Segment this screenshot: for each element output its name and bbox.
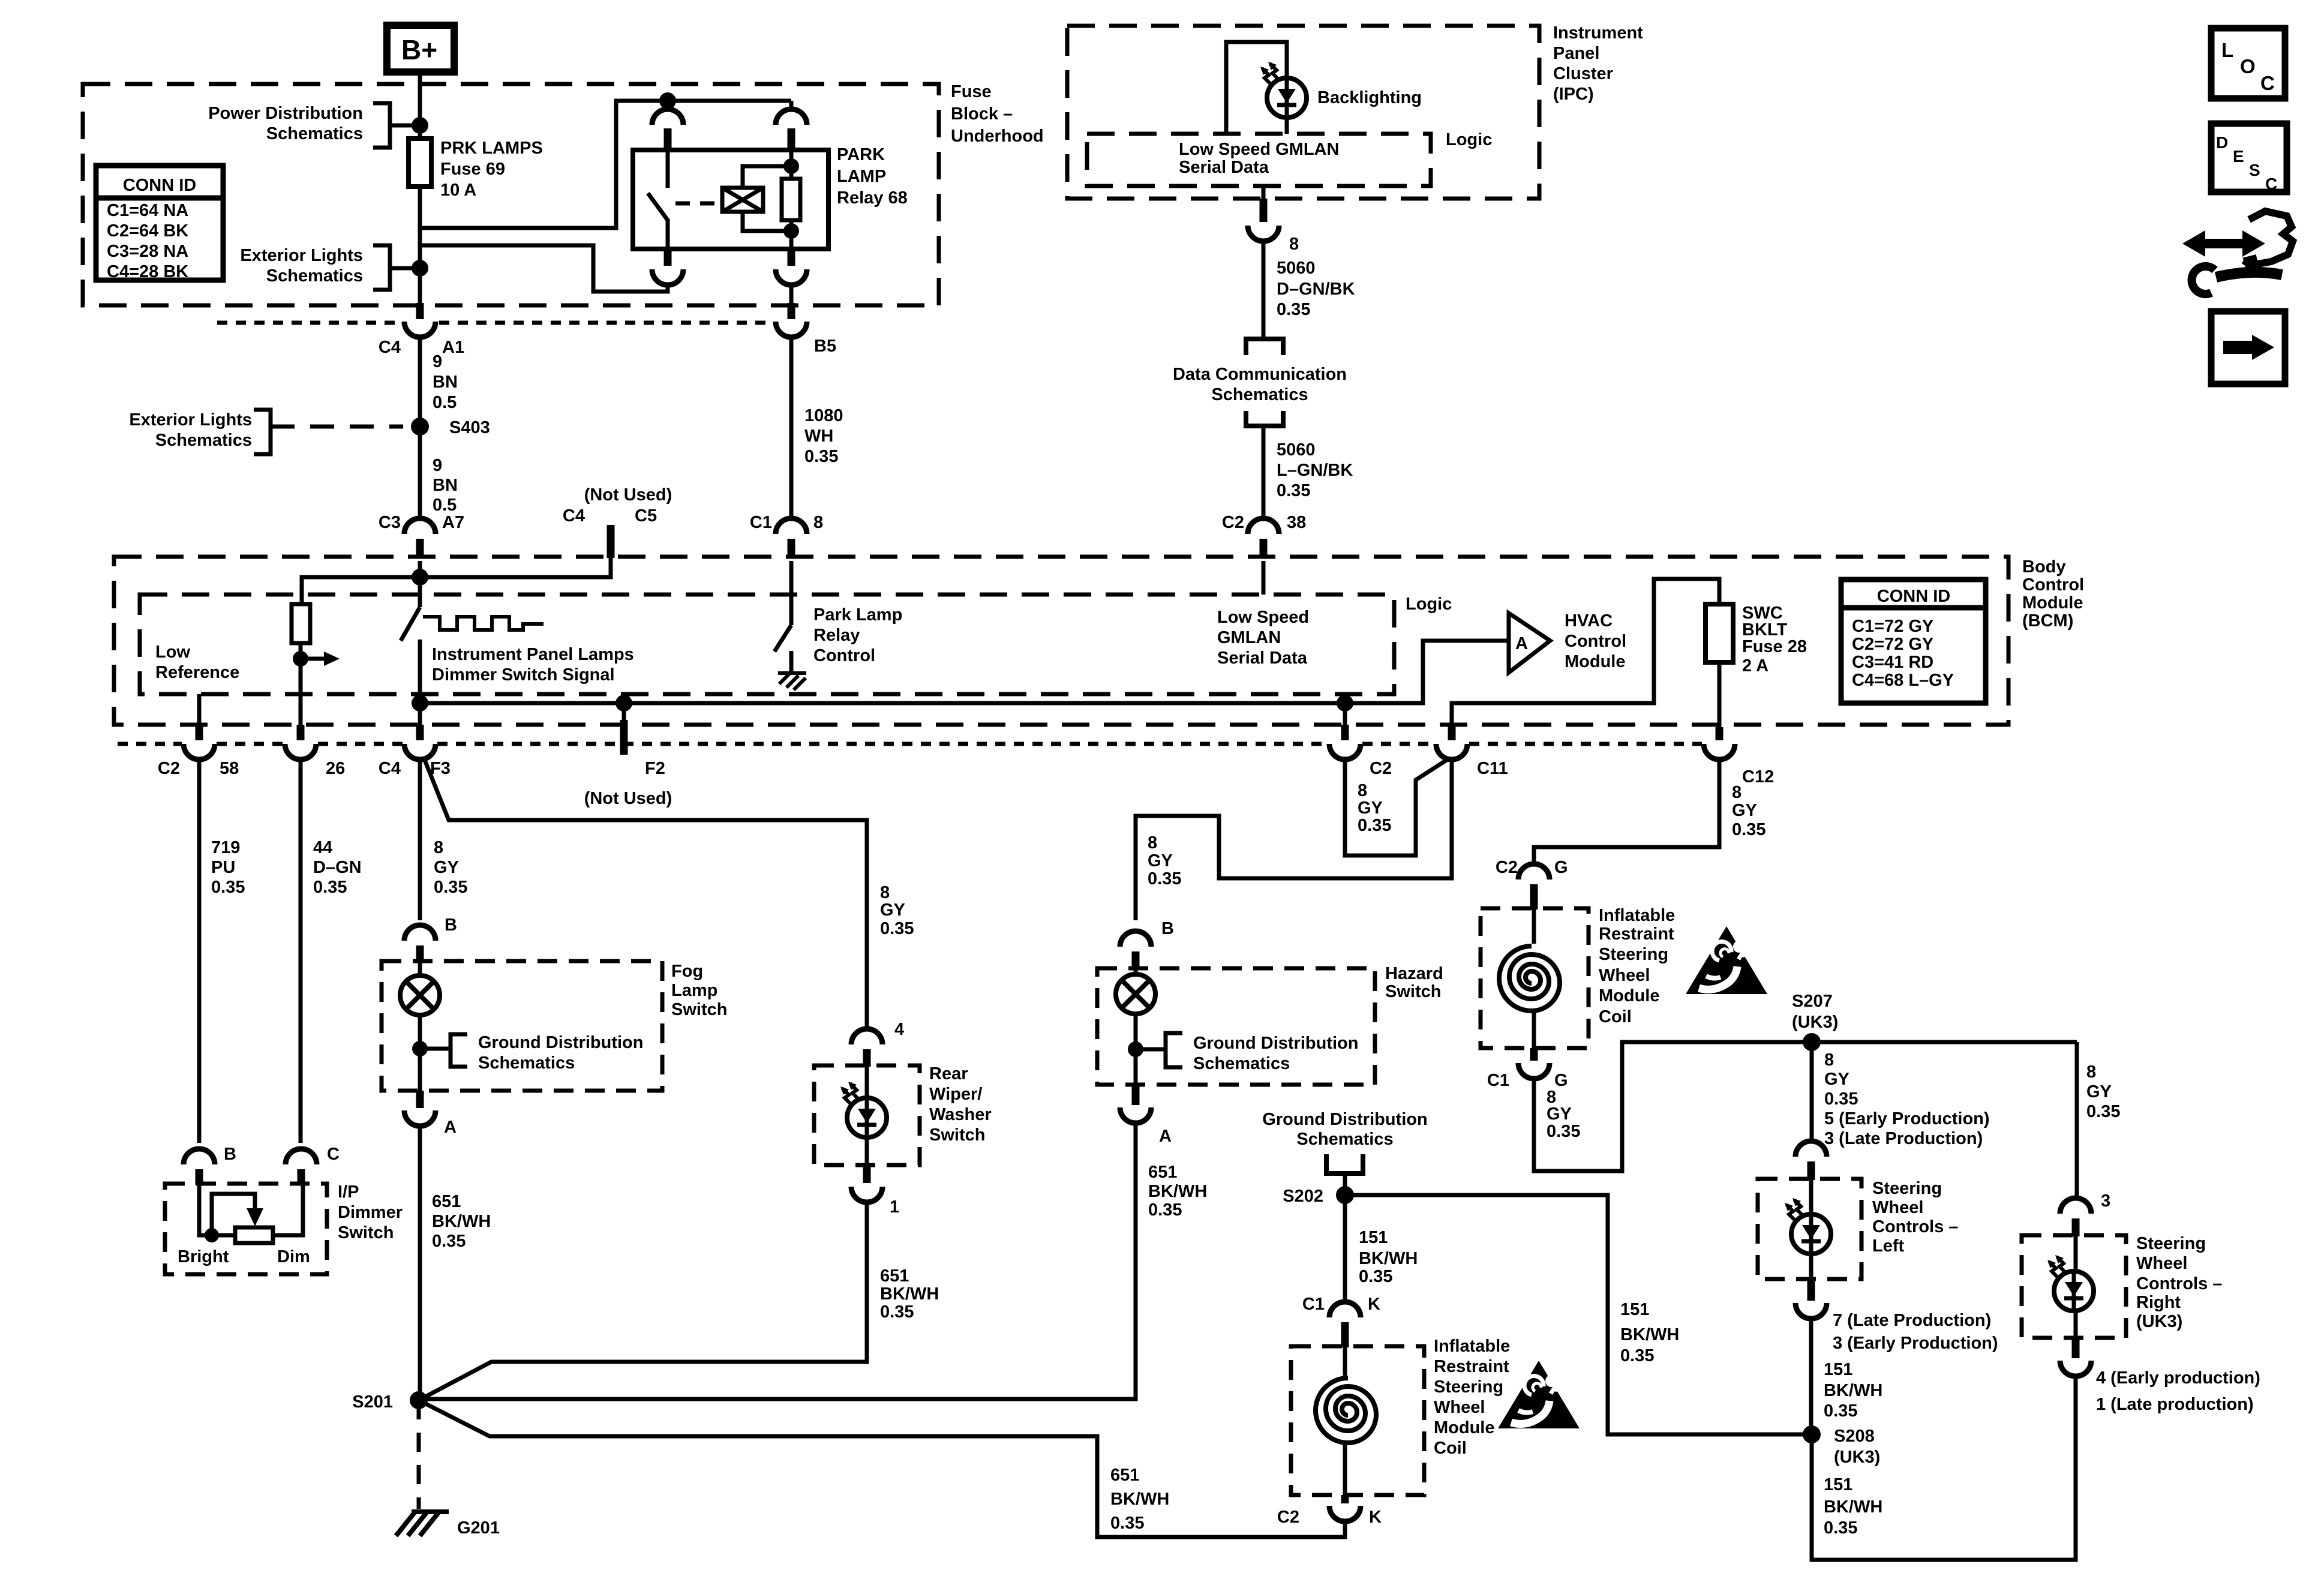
svg-text:8: 8 — [813, 513, 823, 532]
fuse block underhood dashed box — [83, 84, 939, 305]
DESC box icon — [2211, 124, 2287, 193]
svg-text:C2=72 GY: C2=72 GY — [1852, 635, 1933, 654]
svg-text:0.35: 0.35 — [804, 447, 838, 466]
svg-text:Dimmer: Dimmer — [338, 1203, 403, 1222]
svg-text:Coil: Coil — [1434, 1439, 1467, 1458]
connector C12 — [1716, 727, 1724, 740]
label fuse block underhood — [951, 82, 1044, 146]
svg-text:Park Lamp: Park Lamp — [813, 605, 902, 625]
svg-text:9: 9 — [433, 352, 442, 371]
svg-text:C1: C1 — [750, 513, 772, 532]
relay PARK LAMP Relay 68 box — [633, 150, 828, 249]
svg-text:BK/WH: BK/WH — [1824, 1381, 1882, 1400]
svg-text:GY: GY — [2086, 1082, 2112, 1101]
svg-text:Module: Module — [2022, 593, 2083, 613]
IPC bottom connector pin 8 — [1262, 186, 1266, 199]
svg-text:GY: GY — [1358, 798, 1383, 818]
svg-text:Controls –: Controls – — [2136, 1274, 2222, 1293]
dimmer/serial internal bus line — [420, 641, 1509, 703]
svg-text:G: G — [1554, 858, 1568, 877]
relay bottom pins — [664, 249, 672, 266]
wire C12 to coil C2/G — [1534, 760, 1719, 866]
wire C2 loop to C11 — [1345, 758, 1449, 855]
svg-text:Exterior Lights: Exterior Lights — [240, 246, 363, 265]
svg-text:151: 151 — [1824, 1360, 1852, 1379]
svg-text:1: 1 — [890, 1197, 899, 1217]
svg-text:HVAC: HVAC — [1565, 611, 1613, 631]
wire S207 to SWC right — [2075, 1042, 2079, 1199]
svg-text:Body: Body — [2022, 557, 2066, 577]
svg-text:0.35: 0.35 — [1824, 1518, 1857, 1538]
svg-text:0.35: 0.35 — [432, 1232, 466, 1251]
svg-text:S207: S207 — [1792, 992, 1833, 1011]
svg-text:0.35: 0.35 — [1277, 481, 1310, 500]
svg-text:C4: C4 — [379, 759, 401, 778]
svg-text:B: B — [1161, 919, 1174, 938]
svg-text:WH: WH — [804, 427, 833, 446]
svg-text:F3: F3 — [430, 759, 451, 778]
steering wheel controls left box — [1758, 1179, 1861, 1279]
relay coil box — [722, 188, 763, 212]
wire 5060 L-GN/BK 0.35 — [1262, 426, 1266, 518]
svg-text:Wiper/: Wiper/ — [929, 1085, 982, 1104]
wire C11 to hazard — [1136, 760, 1452, 920]
svg-text:B5: B5 — [814, 337, 836, 356]
svg-text:Wheel: Wheel — [1599, 966, 1650, 985]
svg-text:BK/WH: BK/WH — [432, 1212, 491, 1231]
Ground Distribution Schematics bracket (hazard) — [1136, 1033, 1182, 1067]
wire F3 branch to rear wiper — [424, 757, 867, 1028]
CONN ID table BCM — [1841, 580, 1986, 703]
svg-text:8: 8 — [1148, 833, 1157, 852]
coil bottom connector C2/K — [1341, 1495, 1349, 1503]
splice S207 — [1803, 1033, 1821, 1051]
fuse PRK LAMPS Fuse 69 — [409, 139, 431, 187]
svg-text:GMLAN: GMLAN — [1217, 628, 1281, 647]
wire stub into relay pin arcs — [666, 101, 670, 109]
svg-text:C11: C11 — [1477, 759, 1508, 778]
svg-text:Schematics: Schematics — [1211, 385, 1308, 404]
svg-text:Logic: Logic — [1406, 595, 1452, 614]
wire S207 to SWC left — [1810, 1042, 1814, 1141]
svg-text:Fuse 28: Fuse 28 — [1742, 637, 1807, 656]
node: tap to power distribution — [412, 117, 428, 134]
svg-text:(UK3): (UK3) — [2136, 1312, 2182, 1331]
svg-text:C3: C3 — [379, 513, 401, 532]
svg-text:B: B — [445, 915, 457, 935]
wire 651 BK/WH 0.35 rear wiper to S201 — [419, 1202, 867, 1400]
svg-text:5060: 5060 — [1277, 440, 1316, 460]
svg-text:Logic: Logic — [1446, 130, 1492, 149]
HVAC control module buffer triangle — [1509, 613, 1550, 673]
svg-text:Instrument: Instrument — [1553, 23, 1643, 43]
svg-text:Low: Low — [155, 643, 190, 662]
svg-text:Schematics: Schematics — [478, 1053, 575, 1073]
svg-text:151: 151 — [1620, 1300, 1649, 1319]
node coil top — [783, 158, 799, 174]
svg-text:0.35: 0.35 — [1359, 1267, 1392, 1286]
svg-text:C5: C5 — [635, 506, 657, 526]
splice S403 — [411, 418, 429, 436]
wire coil C1 to S207 — [1534, 1042, 2077, 1171]
svg-text:Module: Module — [1599, 986, 1660, 1005]
svg-text:Control: Control — [1565, 632, 1626, 651]
svg-text:C12: C12 — [1742, 767, 1774, 786]
BCM connector row dotted line — [118, 742, 1702, 746]
svg-text:S201: S201 — [352, 1392, 393, 1412]
svg-text:Inflatable: Inflatable — [1599, 906, 1675, 925]
svg-text:0.35: 0.35 — [1110, 1514, 1144, 1533]
svg-text:C1: C1 — [1487, 1071, 1509, 1090]
svg-text:GY: GY — [1547, 1104, 1572, 1124]
Ground Distribution Schematics bracket (fog) — [420, 1034, 467, 1067]
connector C2 (hazard feed) — [1343, 703, 1347, 725]
hazard illumination bulb — [1116, 974, 1155, 1014]
ground lead dashed — [417, 1400, 421, 1509]
svg-text:Schematics: Schematics — [1193, 1054, 1290, 1073]
svg-text:Switch: Switch — [1385, 982, 1441, 1001]
SWC left connector — [1795, 1141, 1827, 1157]
svg-text:651: 651 — [1110, 1466, 1139, 1485]
fog lamp switch bottom connector A — [416, 1091, 424, 1108]
svg-text:0.35: 0.35 — [211, 878, 245, 897]
node low reference tap — [293, 651, 308, 667]
svg-text:4: 4 — [894, 1020, 904, 1039]
connector B5 — [788, 303, 795, 319]
svg-text:0.5: 0.5 — [433, 393, 457, 412]
svg-text:S208: S208 — [1834, 1427, 1875, 1446]
node hazard ground tap — [1128, 1041, 1143, 1057]
svg-text:C2: C2 — [1370, 759, 1392, 778]
svg-text:BN: BN — [433, 373, 458, 392]
low reference wire to C2/58 — [197, 694, 202, 725]
svg-text:C2: C2 — [1496, 858, 1518, 877]
svg-text:Control: Control — [813, 646, 875, 665]
svg-text:B: B — [224, 1145, 236, 1164]
svg-text:Schematics: Schematics — [155, 431, 252, 450]
diagnostic hand-with-wrench icon — [2182, 211, 2293, 294]
svg-text:58: 58 — [220, 759, 239, 778]
battery feed B+ — [387, 25, 454, 72]
fuse block connector row dotted line — [217, 321, 772, 325]
svg-text:D: D — [2216, 133, 2228, 152]
svg-text:BN: BN — [433, 476, 458, 495]
svg-text:Restraint: Restraint — [1599, 924, 1674, 944]
forward arrow box icon — [2211, 311, 2285, 384]
wire fuse to relay top — [420, 101, 791, 228]
ground G201 — [396, 1512, 449, 1536]
svg-text:C2=64 BK: C2=64 BK — [107, 221, 188, 241]
svg-text:0.35: 0.35 — [1277, 300, 1310, 319]
fog lamp illumination bulb — [400, 975, 440, 1015]
hazard bottom connector A — [1132, 1085, 1140, 1105]
Power Distribution Schematics reference bracket — [208, 103, 420, 148]
dimmer switch signal square wave — [423, 617, 544, 630]
svg-text:Wheel: Wheel — [2136, 1254, 2187, 1273]
svg-text:10 A: 10 A — [440, 181, 476, 200]
svg-text:BK/WH: BK/WH — [1620, 1325, 1679, 1344]
svg-text:Coil: Coil — [1599, 1007, 1632, 1026]
svg-text:Underhood: Underhood — [951, 127, 1044, 146]
svg-text:3: 3 — [2101, 1191, 2110, 1211]
svg-text:Wheel: Wheel — [1434, 1398, 1485, 1417]
svg-text:151: 151 — [1824, 1475, 1852, 1494]
svg-text:Relay 68: Relay 68 — [837, 188, 908, 208]
svg-text:Ground Distribution: Ground Distribution — [478, 1033, 643, 1052]
svg-text:GY: GY — [1148, 851, 1173, 870]
svg-text:Relay: Relay — [813, 626, 860, 645]
park lamp relay control switch blade — [774, 625, 791, 652]
connector C4/F3 — [416, 725, 424, 740]
svg-text:Steering: Steering — [1872, 1179, 1942, 1198]
svg-text:1080: 1080 — [804, 406, 843, 425]
svg-text:E: E — [2233, 147, 2244, 166]
connector C4/A1 — [416, 303, 424, 319]
svg-text:Fuse 69: Fuse 69 — [440, 160, 505, 179]
svg-text:C4=68 L–GY: C4=68 L–GY — [1852, 671, 1954, 690]
wire A7 into BCM — [418, 561, 422, 607]
svg-text:BK/WH: BK/WH — [1110, 1490, 1169, 1509]
svg-text:LAMP: LAMP — [837, 167, 886, 186]
svg-text:S403: S403 — [449, 418, 490, 437]
label 8 GY 0.35 hazard feed — [1148, 833, 1181, 888]
svg-text:(Not Used): (Not Used) — [584, 485, 672, 505]
svg-text:S202: S202 — [1283, 1187, 1323, 1206]
svg-text:C2: C2 — [1277, 1508, 1299, 1527]
wire 5060 D-GN/BK 0.35 — [1262, 241, 1266, 339]
svg-text:0.35: 0.35 — [2086, 1102, 2120, 1121]
steering wheel controls right box — [2022, 1235, 2126, 1338]
wire 651 BK/WH 0.35 hazard to S201 — [426, 1123, 1136, 1399]
internal ground — [778, 673, 806, 690]
svg-text:Serial Data: Serial Data — [1179, 158, 1269, 177]
relay switch contact — [666, 150, 670, 188]
svg-text:BK/WH: BK/WH — [1824, 1497, 1882, 1517]
svg-text:0.35: 0.35 — [1358, 816, 1391, 835]
GMLAN label in BCM — [1217, 608, 1309, 668]
wire dimmer signal down — [418, 640, 422, 725]
svg-text:C3=28 NA: C3=28 NA — [107, 242, 188, 261]
svg-text:Dim: Dim — [277, 1247, 310, 1266]
wire SWC left to S208 — [1809, 1319, 1813, 1434]
connector 26 — [297, 725, 305, 740]
svg-text:Schematics: Schematics — [266, 124, 363, 143]
svg-text:K: K — [1369, 1508, 1382, 1527]
Data Communication Schematics reference — [1246, 339, 1283, 355]
svg-text:651: 651 — [1148, 1163, 1177, 1182]
svg-text:D–GN/BK: D–GN/BK — [1277, 280, 1355, 299]
node A7 junction — [412, 569, 428, 586]
svg-text:Control: Control — [2022, 575, 2084, 595]
wire 8 GY 0.35 to fog lamp switch — [418, 760, 422, 920]
relay mechanical dashed link — [675, 202, 720, 206]
svg-text:8: 8 — [1824, 1050, 1834, 1070]
svg-text:(IPC): (IPC) — [1553, 85, 1594, 104]
svg-text:C3=41 RD: C3=41 RD — [1852, 653, 1933, 672]
svg-text:GY: GY — [434, 858, 459, 877]
svg-text:PARK: PARK — [837, 145, 885, 164]
svg-text:Left: Left — [1872, 1236, 1905, 1256]
C11 internal line to SWC fuse — [1452, 579, 1719, 725]
svg-text:26: 26 — [326, 759, 345, 778]
coil bottom connector C1/G — [1530, 1048, 1538, 1061]
BCM logic dashed box — [140, 595, 1394, 694]
svg-text:Controls –: Controls – — [1872, 1217, 1958, 1236]
svg-text:Hazard: Hazard — [1385, 964, 1443, 983]
svg-text:BK/WH: BK/WH — [1359, 1249, 1418, 1268]
svg-text:A: A — [1159, 1127, 1172, 1146]
svg-text:G201: G201 — [457, 1518, 500, 1538]
svg-text:8: 8 — [434, 838, 443, 857]
svg-text:0.35: 0.35 — [880, 919, 914, 938]
rear wiper illumination LED — [840, 1082, 887, 1137]
svg-text:Cluster: Cluster — [1553, 64, 1613, 83]
svg-text:Ground Distribution: Ground Distribution — [1193, 1034, 1358, 1053]
dimmer potentiometer — [199, 1184, 235, 1235]
svg-text:2 A: 2 A — [1742, 656, 1768, 676]
svg-text:Fog: Fog — [671, 962, 703, 981]
park lamp relay control wire — [789, 561, 794, 625]
wire S202 to S208 riser — [1345, 1195, 1806, 1434]
wire logic to backlighting — [1226, 42, 1287, 134]
svg-text:7 (Late Production): 7 (Late Production) — [1833, 1311, 1991, 1330]
wire relay pin 30 down to B5 — [789, 285, 794, 303]
node relay pin 1 tap — [659, 92, 676, 109]
svg-text:CONN ID: CONN ID — [123, 176, 196, 195]
svg-text:Steering: Steering — [2136, 1234, 2206, 1253]
svg-text:Bright: Bright — [178, 1247, 229, 1266]
svg-text:3 (Early Production): 3 (Early Production) — [1833, 1334, 1998, 1353]
node: tap to exterior lights — [412, 260, 428, 277]
wire main feed down to C4/A1 — [418, 228, 422, 303]
node fog ground tap — [412, 1041, 428, 1056]
svg-text:L: L — [2221, 39, 2233, 61]
svg-text:PU: PU — [211, 858, 235, 877]
svg-text:Low Speed: Low Speed — [1217, 608, 1309, 627]
low reference resistor — [292, 604, 310, 643]
svg-text:Switch: Switch — [929, 1125, 985, 1145]
svg-text:44: 44 — [313, 838, 332, 857]
arrow low reference — [301, 657, 325, 661]
svg-text:A7: A7 — [442, 513, 464, 532]
svg-text:0.35: 0.35 — [313, 878, 347, 897]
wire C2/38 into BCM logic — [1262, 561, 1266, 595]
svg-text:Switch: Switch — [338, 1223, 394, 1242]
svg-text:(UK3): (UK3) — [1792, 1013, 1838, 1032]
svg-text:8: 8 — [880, 883, 890, 902]
node coil bottom — [783, 223, 799, 239]
label instrument panel lamps dimmer switch signal — [432, 645, 634, 685]
svg-text:Rear: Rear — [929, 1064, 968, 1083]
svg-text:GY: GY — [1824, 1070, 1849, 1089]
SWC BKLT Fuse 28 — [1706, 604, 1733, 662]
svg-text:C4=28 BK: C4=28 BK — [107, 262, 188, 281]
svg-text:8: 8 — [1732, 783, 1742, 802]
svg-text:651: 651 — [880, 1266, 909, 1286]
svg-text:K: K — [1368, 1295, 1380, 1314]
lower clockspring coil box — [1291, 1346, 1424, 1495]
svg-text:Schematics: Schematics — [1296, 1130, 1393, 1149]
svg-text:Power Distribution: Power Distribution — [208, 104, 363, 123]
svg-text:GY: GY — [880, 900, 905, 920]
svg-text:(Not Used): (Not Used) — [584, 789, 672, 808]
wire B+ to fuse — [418, 72, 422, 139]
svg-text:BK/WH: BK/WH — [880, 1284, 939, 1304]
wire branch 3 to coil C2/K — [419, 1400, 1345, 1537]
svg-text:5060: 5060 — [1277, 259, 1316, 278]
svg-text:651: 651 — [432, 1192, 461, 1211]
svg-text:8: 8 — [2086, 1062, 2096, 1082]
svg-text:B+: B+ — [401, 34, 437, 65]
svg-text:C: C — [2260, 72, 2275, 94]
svg-text:I/P: I/P — [338, 1182, 359, 1202]
Exterior Lights Schematics reference bracket (S403) — [129, 410, 403, 454]
svg-text:5 (Early Production): 5 (Early Production) — [1824, 1109, 1990, 1128]
wire 651 BK/WH 0.35 fog to S201 — [418, 1126, 422, 1400]
svg-text:0.35: 0.35 — [1824, 1401, 1857, 1421]
svg-text:Backlighting: Backlighting — [1317, 88, 1422, 107]
svg-text:4 (Early production): 4 (Early production) — [2096, 1368, 2260, 1388]
svg-text:C: C — [2265, 175, 2277, 193]
relay coil suppression resistor — [782, 179, 800, 220]
svg-text:9: 9 — [433, 456, 442, 475]
svg-text:Dimmer Switch Signal: Dimmer Switch Signal — [432, 665, 615, 685]
svg-text:S: S — [2249, 161, 2260, 179]
wire relay switch feed loop — [422, 245, 668, 292]
svg-text:0.35: 0.35 — [1148, 1200, 1182, 1220]
svg-text:C2: C2 — [158, 759, 180, 778]
relay top connector arcs — [652, 109, 683, 125]
svg-text:Switch: Switch — [671, 1000, 727, 1019]
svg-text:0.35: 0.35 — [1824, 1089, 1858, 1109]
CONN ID table fuse block — [96, 166, 223, 281]
svg-text:Serial Data: Serial Data — [1217, 649, 1308, 668]
svg-text:8: 8 — [1289, 235, 1299, 254]
dimmer switch signal symbol blade — [401, 607, 420, 641]
svg-text:C: C — [327, 1145, 340, 1164]
svg-text:Module: Module — [1434, 1418, 1495, 1437]
svg-text:PRK LAMPS: PRK LAMPS — [440, 139, 543, 158]
IPC logic dashed box — [1087, 134, 1431, 186]
wire 9 BN 0.5 lower — [433, 456, 458, 515]
connector F2 not used — [622, 703, 626, 720]
svg-text:(UK3): (UK3) — [1834, 1448, 1880, 1467]
svg-text:719: 719 — [211, 838, 240, 857]
svg-text:Lamp: Lamp — [671, 981, 717, 1000]
LOC box icon — [2211, 28, 2285, 98]
relay coil branch — [743, 166, 791, 231]
svg-text:BK/WH: BK/WH — [1148, 1182, 1207, 1201]
svg-text:3 (Late Production): 3 (Late Production) — [1824, 1129, 1983, 1148]
backlighting lamp — [1260, 62, 1307, 118]
airbag warning triangle upper — [1686, 926, 1767, 994]
wire 719 PU 0.35 — [197, 760, 202, 1143]
svg-text:151: 151 — [1359, 1228, 1388, 1247]
svg-text:8: 8 — [1358, 781, 1367, 800]
svg-text:Fuse: Fuse — [951, 82, 992, 101]
svg-text:C1=64 NA: C1=64 NA — [107, 201, 188, 220]
svg-text:Data Communication: Data Communication — [1173, 365, 1347, 384]
airbag warning triangle lower — [1498, 1361, 1580, 1428]
svg-text:Block –: Block – — [951, 104, 1013, 124]
svg-text:G: G — [1554, 1071, 1568, 1090]
svg-text:C1=72 GY: C1=72 GY — [1852, 617, 1933, 636]
svg-text:Panel: Panel — [1553, 44, 1599, 63]
connector C11 — [1448, 725, 1456, 740]
svg-text:GY: GY — [1732, 801, 1757, 820]
svg-text:A: A — [444, 1118, 457, 1137]
svg-text:C2: C2 — [1222, 513, 1244, 532]
